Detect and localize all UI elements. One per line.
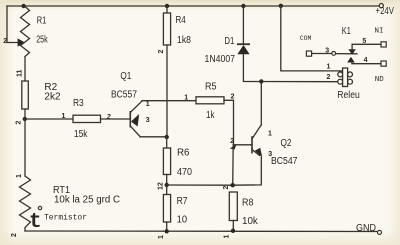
svg-text:R1: R1 <box>37 15 47 26</box>
wire: R3 to Q1 base <box>101 118 131 120</box>
potentiometer R1 wiper arrow <box>18 38 25 46</box>
svg-text:1k8: 1k8 <box>177 35 191 46</box>
svg-text:1: 1 <box>16 174 23 178</box>
svg-text:R7: R7 <box>177 196 188 207</box>
node: R6/R7 junction <box>165 183 169 187</box>
terminal square ND <box>381 61 386 66</box>
relay K1 coil body <box>338 68 353 87</box>
wire: R6/R7 node to R7 <box>166 185 168 195</box>
wire: R6 bottom to node <box>166 175 168 186</box>
svg-text:10: 10 <box>177 215 188 226</box>
wire: NO contact to ND terminal <box>352 62 381 63</box>
svg-text:1: 1 <box>327 64 331 71</box>
wire: base tap to Q2 base <box>234 144 253 146</box>
svg-text:R3: R3 <box>73 98 84 109</box>
wire: Q1 pin3 to R4/R6 column <box>140 136 167 138</box>
svg-text:BC547: BC547 <box>271 156 298 167</box>
svg-text:10k: 10k <box>242 216 259 227</box>
wire: Q2 emitter jog to R8 node <box>233 157 262 185</box>
wire: rail to R4 <box>166 6 168 13</box>
svg-text:1N4007: 1N4007 <box>205 54 236 65</box>
transistor Q2 collector (pin 1) diagonal <box>252 125 261 139</box>
svg-text:2: 2 <box>231 93 235 100</box>
resistor R2 <box>22 81 29 109</box>
transistor Q1 base bar <box>129 111 131 128</box>
svg-text:K1: K1 <box>342 26 351 37</box>
node: R7 ground junction <box>165 229 169 233</box>
svg-text:GND: GND <box>356 223 376 234</box>
svg-text:ND: ND <box>375 76 385 84</box>
svg-text:4: 4 <box>364 57 368 64</box>
node: R8 top junction <box>231 183 235 187</box>
svg-text:1: 1 <box>158 235 165 239</box>
wire: R5 pin2 corner down <box>224 100 234 145</box>
svg-text:R8: R8 <box>242 198 254 209</box>
wire: +24V top rail <box>7 5 379 7</box>
svg-text:R5: R5 <box>205 82 217 93</box>
wire: rail down to D1 <box>242 6 244 44</box>
svg-text:1: 1 <box>184 94 188 101</box>
transistor Q1 arrow <box>131 114 139 127</box>
svg-text:2: 2 <box>327 74 331 81</box>
svg-text:1k: 1k <box>206 110 215 121</box>
node: base tap junction arrow <box>230 144 237 150</box>
svg-text:12: 12 <box>158 182 165 190</box>
NC contact arrow (down) <box>348 49 355 55</box>
svg-text:2: 2 <box>106 114 111 121</box>
svg-text:3: 3 <box>325 48 329 55</box>
svg-text:470: 470 <box>177 167 192 178</box>
node: relay pin1 rail junction <box>279 4 283 8</box>
svg-text:1: 1 <box>268 131 272 138</box>
wire: left drop to R1 wiper <box>7 6 18 43</box>
svg-text:2: 2 <box>3 38 7 45</box>
resistor R6 <box>163 148 170 175</box>
svg-text:Q2: Q2 <box>281 138 292 149</box>
svg-text:Q1: Q1 <box>120 71 131 82</box>
wire: GND bottom rail <box>25 230 377 233</box>
wire: junction to R6 <box>166 137 168 148</box>
wire: R4 bottom down across emitter rail to Q1 collector node <box>166 45 168 137</box>
wire: NC contact to NI terminal <box>352 44 381 49</box>
switch arm <box>336 53 357 55</box>
node: Q1 collector / R6 junction <box>165 135 169 139</box>
node: R1 top junction <box>21 4 25 8</box>
svg-text:2: 2 <box>158 50 165 54</box>
wire: R7 bottom to ground rail <box>166 222 168 231</box>
wire: rail down and right to relay coil pin 1 <box>281 6 343 71</box>
resistor R8 <box>229 192 237 221</box>
wire: D1 anode to relay coil pin 2 <box>243 54 337 81</box>
node: GND terminal circle <box>378 230 382 234</box>
wire: junction down to RT1 <box>24 119 26 176</box>
transistor Q2 arrow <box>255 148 262 158</box>
svg-text:R4: R4 <box>176 15 187 26</box>
diode D1 cathode bar <box>237 43 250 45</box>
svg-text:BC557: BC557 <box>111 90 137 101</box>
svg-text:3: 3 <box>146 117 150 124</box>
resistor R5 <box>196 97 224 104</box>
node: R8 ground junction <box>231 229 235 233</box>
terminal square NI <box>381 42 386 47</box>
svg-text:COM: COM <box>300 35 312 42</box>
transistor Q1 collector (pin 1) diagonal <box>130 101 142 113</box>
svg-text:+24V: +24V <box>376 6 395 17</box>
svg-text:2: 2 <box>230 138 234 145</box>
potentiometer R1 body (zigzag) <box>21 7 30 57</box>
wire: Q2 collector up to coil node <box>260 81 262 124</box>
node: R2/R3/RT1 junction <box>23 117 27 121</box>
svg-text:D1: D1 <box>224 36 234 47</box>
svg-text:10k la 25 grd C: 10k la 25 grd C <box>54 194 120 205</box>
svg-text:Termistor: Termistor <box>44 214 87 223</box>
wire: R8 bottom to ground rail <box>232 221 234 232</box>
wire: node line from R6/R7 junction <box>167 184 233 186</box>
wire: COM square to pivot <box>312 53 332 55</box>
node: D1 top junction <box>241 4 245 8</box>
node: R4 top junction <box>165 4 169 8</box>
resistor R4 <box>163 13 170 45</box>
svg-text:R6: R6 <box>177 148 190 159</box>
svg-text:2: 2 <box>223 186 230 190</box>
svg-text:Releu: Releu <box>337 90 360 101</box>
wire: column continues to R8 node <box>232 145 235 185</box>
wire: R1 bottom to R2 top <box>24 57 26 82</box>
wire: junction to R3 <box>25 118 73 120</box>
thermistor RT1 body (zigzag) <box>20 176 31 231</box>
svg-text:25k: 25k <box>36 35 48 46</box>
svg-text:15k: 15k <box>74 129 88 140</box>
svg-text:NI: NI <box>375 28 384 36</box>
terminal square COM <box>306 51 311 56</box>
svg-text:2: 2 <box>11 233 18 237</box>
node: +24V terminal circle <box>379 4 383 8</box>
svg-text:1: 1 <box>146 101 150 108</box>
svg-text:2: 2 <box>16 121 23 125</box>
node: collector / D1 / coil junction <box>259 79 263 83</box>
svg-text:1: 1 <box>224 235 231 239</box>
wire: Q1 pin1 to R5 (emitter rail) <box>142 100 196 102</box>
node: pivot circle <box>332 52 336 56</box>
resistor R7 <box>163 195 170 223</box>
svg-text:5: 5 <box>362 38 366 45</box>
transistor Q1 emitter (pin 3) diagonal <box>130 126 140 137</box>
svg-text:11: 11 <box>17 69 24 77</box>
transistor Q2 base bar <box>251 136 253 153</box>
svg-text:2k2: 2k2 <box>44 92 61 103</box>
diode D1 triangle <box>237 45 249 54</box>
transistor Q2 emitter (pin 3) diagonal <box>252 150 260 156</box>
resistor R3 <box>73 115 101 122</box>
wire: R2 bottom to junction <box>24 109 26 119</box>
NO contact arrow (up) <box>347 57 355 63</box>
svg-text:1: 1 <box>62 113 66 120</box>
